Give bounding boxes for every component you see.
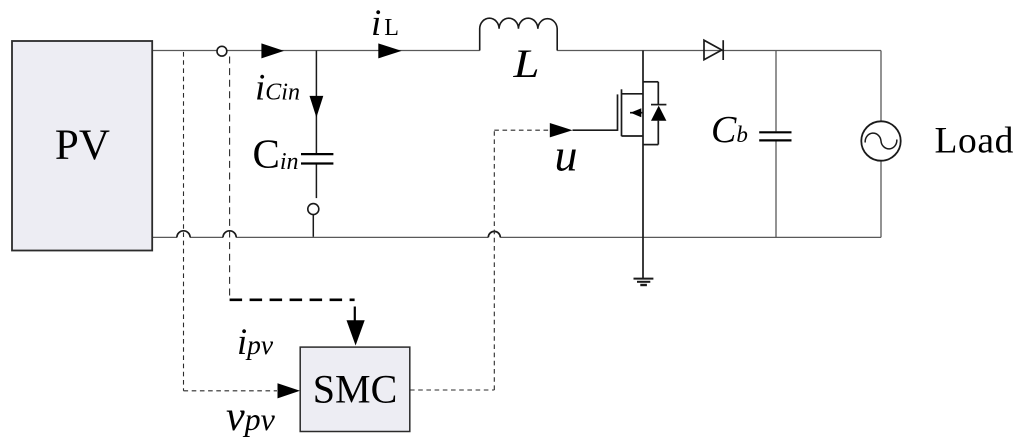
svg-text:L: L [512, 41, 539, 86]
svg-text:vpv: vpv [226, 394, 276, 440]
svg-text:SMC: SMC [313, 367, 398, 412]
svg-text:Load: Load [935, 120, 1014, 161]
svg-text:u: u [555, 130, 578, 181]
svg-text:PV: PV [55, 122, 110, 169]
